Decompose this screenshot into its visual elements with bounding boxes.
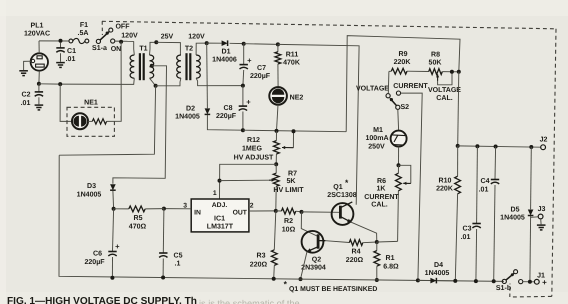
svg-text:220µF: 220µF bbox=[84, 259, 105, 266]
wire D3 cathode bbox=[112, 191, 115, 209]
dashed border left stub bbox=[101, 21, 103, 35]
diode D2 bbox=[205, 108, 211, 114]
svg-text:.01: .01 bbox=[66, 56, 76, 63]
svg-text:2: 2 bbox=[250, 203, 254, 210]
dashed border bottom-left stub bbox=[509, 284, 511, 298]
node NE1 branch bbox=[58, 82, 62, 86]
node D5 top bbox=[529, 145, 533, 149]
svg-text:ON: ON bbox=[111, 46, 122, 53]
resistor R12 bbox=[274, 131, 280, 164]
svg-text:NE1: NE1 bbox=[84, 100, 98, 107]
svg-text:2SC1308: 2SC1308 bbox=[327, 192, 356, 199]
label R3 bbox=[250, 253, 268, 269]
label R4 bbox=[346, 249, 364, 264]
svg-text:+: + bbox=[115, 242, 120, 251]
label IC1 pins bbox=[194, 202, 248, 230]
label ON bbox=[111, 46, 122, 53]
svg-text:IN: IN bbox=[194, 210, 201, 217]
label C2 bbox=[21, 92, 31, 107]
plug PL1 bbox=[31, 53, 48, 70]
node ADJ bbox=[218, 179, 222, 183]
node C2 bbox=[37, 82, 41, 86]
label S1-b bbox=[496, 284, 512, 292]
svg-text:J3: J3 bbox=[538, 206, 546, 213]
label D4 bbox=[425, 262, 450, 277]
wire T2 secondary top bbox=[196, 43, 207, 55]
label R5 bbox=[129, 215, 147, 230]
wire S1b to J1 bbox=[523, 281, 535, 283]
label OFF bbox=[115, 24, 130, 31]
node IN bbox=[162, 207, 166, 211]
wire IN lead bbox=[164, 208, 191, 210]
dashed box NE1 bbox=[67, 107, 114, 136]
wire Q1 base bbox=[302, 211, 340, 213]
resistor R3 bbox=[271, 211, 277, 279]
wire T1 primary bottom bbox=[60, 78, 134, 84]
regulator IC1 bbox=[191, 199, 249, 232]
svg-text:OFF: OFF bbox=[115, 24, 130, 31]
svg-text:+: + bbox=[246, 98, 251, 107]
node R8 out a bbox=[450, 70, 454, 74]
svg-text:PL1: PL1 bbox=[31, 23, 44, 30]
wire bottom rail mid bbox=[301, 279, 505, 281]
node J2 rail start bbox=[456, 144, 460, 148]
label 120V-b bbox=[188, 34, 205, 41]
node R7 top bbox=[274, 162, 278, 166]
svg-text:D3: D3 bbox=[87, 183, 96, 190]
svg-text:CAL.: CAL. bbox=[371, 202, 387, 209]
label Q2 bbox=[301, 257, 326, 272]
svg-text:ADJ.: ADJ. bbox=[212, 202, 228, 209]
pot R6 wiper bbox=[399, 165, 411, 185]
node C4 top bbox=[494, 145, 498, 149]
svg-text:50K: 50K bbox=[429, 59, 443, 66]
capacitor C3 bbox=[472, 146, 480, 281]
label R7 bbox=[273, 171, 304, 194]
wire T1 bottom to common bbox=[59, 86, 155, 155]
node C1 bbox=[59, 39, 63, 43]
svg-text:1N4005: 1N4005 bbox=[500, 214, 525, 221]
label J1 bbox=[537, 273, 547, 288]
node C4 bottom bbox=[492, 279, 496, 283]
wire D1 anode lead bbox=[207, 42, 222, 44]
ground C1 bbox=[56, 63, 65, 68]
node OUT bbox=[274, 209, 278, 213]
wire R6 bottom bbox=[377, 240, 398, 243]
svg-text:IC1: IC1 bbox=[214, 216, 225, 223]
label pin2 bbox=[250, 203, 254, 210]
label M1 bbox=[365, 127, 388, 151]
svg-text:R7: R7 bbox=[288, 171, 297, 178]
svg-text:220K: 220K bbox=[436, 186, 454, 193]
label R1 bbox=[383, 255, 399, 270]
transistor Q2 bbox=[302, 231, 326, 253]
svg-text:D1: D1 bbox=[221, 49, 230, 56]
dashed border right bbox=[552, 29, 556, 297]
wire D2 cathode bbox=[207, 115, 243, 130]
svg-text:S1-b: S1-b bbox=[496, 284, 512, 292]
footnote heatsink bbox=[284, 279, 378, 293]
wire D5 anode bbox=[530, 147, 533, 209]
node C7 top bbox=[242, 42, 246, 46]
svg-text:220µF: 220µF bbox=[216, 113, 237, 120]
wire T1 primary top bbox=[133, 41, 136, 55]
ground J3 bbox=[537, 225, 546, 230]
label J2 bbox=[540, 137, 548, 144]
node R12 wiper bbox=[292, 129, 296, 133]
svg-text:120VAC: 120VAC bbox=[24, 31, 50, 38]
node R12 top bbox=[275, 129, 279, 133]
svg-text:is is the schematic of the: is is the schematic of the bbox=[199, 298, 300, 304]
wire T2 secondary bottom bbox=[196, 78, 243, 86]
svg-text:250V: 250V bbox=[368, 143, 385, 150]
wire T1 secondary top bbox=[150, 42, 157, 55]
wire NE2 bottom bbox=[277, 105, 279, 131]
svg-text:470K: 470K bbox=[283, 60, 301, 67]
pot R12 wiper bbox=[282, 131, 294, 149]
neon lamp NE1 bbox=[72, 113, 88, 129]
ground C2 bbox=[35, 105, 44, 110]
resistor R6 bbox=[396, 165, 402, 241]
svg-text:C1: C1 bbox=[67, 48, 76, 55]
svg-text:220Ω: 220Ω bbox=[250, 262, 268, 269]
node C6 bottom bbox=[110, 276, 114, 280]
wire S2 pole lead bbox=[397, 109, 400, 130]
diode D1 bbox=[222, 40, 228, 46]
pot R7 arrow bbox=[269, 179, 275, 182]
resistor R5 bbox=[114, 206, 164, 212]
svg-text:120V: 120V bbox=[121, 33, 138, 40]
label T1 bbox=[139, 46, 147, 53]
label 25V bbox=[161, 33, 174, 40]
svg-text:10Ω: 10Ω bbox=[282, 227, 296, 234]
label R8 bbox=[429, 51, 443, 66]
connector J1 bbox=[534, 279, 539, 284]
wire NE1 left bbox=[60, 84, 72, 121]
label 120V-a bbox=[121, 33, 138, 40]
svg-text:M1: M1 bbox=[373, 127, 383, 134]
wire top rail A bbox=[39, 40, 69, 42]
node C3 bottom bbox=[474, 279, 478, 283]
wire J3 link bbox=[531, 216, 538, 219]
wire S2 current lead bbox=[401, 93, 423, 280]
svg-text:D4: D4 bbox=[434, 262, 443, 269]
svg-text:C2: C2 bbox=[21, 92, 30, 99]
wire PL1 bottom bbox=[38, 71, 40, 84]
svg-text:C5: C5 bbox=[174, 253, 183, 260]
node 120V-a bbox=[119, 40, 123, 44]
svg-text:CAL.: CAL. bbox=[436, 95, 452, 102]
label J3 bbox=[538, 206, 546, 213]
label D5 bbox=[500, 207, 525, 222]
svg-text:FIG. 1—HIGH VOLTAGE DC SUPPLY.: FIG. 1—HIGH VOLTAGE DC SUPPLY. Th bbox=[7, 296, 197, 304]
svg-text:220µF: 220µF bbox=[250, 73, 271, 80]
svg-text:C4: C4 bbox=[480, 178, 489, 185]
svg-text:J2: J2 bbox=[540, 137, 548, 144]
svg-text:HV LIMIT: HV LIMIT bbox=[273, 187, 304, 194]
capacitor C6 bbox=[108, 209, 116, 278]
svg-text:R4: R4 bbox=[351, 249, 360, 256]
svg-text:Q1 MUST BE HEATSINKED: Q1 MUST BE HEATSINKED bbox=[289, 286, 377, 293]
node C7-C8 bbox=[241, 84, 245, 88]
meter M1 bbox=[391, 131, 407, 147]
svg-text:R11: R11 bbox=[286, 52, 299, 59]
label R9 bbox=[394, 51, 412, 66]
node C8 bottom bbox=[241, 128, 245, 132]
svg-text:R1: R1 bbox=[385, 255, 394, 262]
svg-text:R2: R2 bbox=[284, 218, 293, 225]
label C1 bbox=[66, 48, 76, 63]
svg-text:25V: 25V bbox=[161, 33, 174, 40]
resistor R10 bbox=[455, 146, 461, 281]
svg-text:VOLTAGE: VOLTAGE bbox=[428, 87, 461, 94]
node D1 anode bbox=[205, 41, 209, 45]
svg-text:Q1: Q1 bbox=[333, 184, 342, 191]
svg-text:OUT: OUT bbox=[233, 210, 248, 217]
capacitor C4 bbox=[491, 147, 499, 282]
label CURRENT-sw bbox=[393, 83, 428, 90]
resistor R7 bbox=[273, 164, 279, 211]
switch S2 bbox=[386, 91, 401, 109]
label Q1 bbox=[327, 178, 356, 200]
wire 25V rail bbox=[156, 42, 180, 55]
wire T1 secondary bottom bbox=[150, 78, 156, 86]
label R2 bbox=[282, 218, 296, 234]
resistor R8 bbox=[429, 69, 459, 75]
wire PL1 top bbox=[38, 41, 40, 53]
dashed border top bbox=[102, 21, 556, 29]
svg-text:1: 1 bbox=[213, 190, 217, 197]
fuse F1 bbox=[69, 38, 89, 43]
capacitor C5 bbox=[159, 209, 167, 278]
svg-text:220K: 220K bbox=[394, 59, 412, 66]
node current drop bbox=[416, 278, 420, 282]
wire T2 primary bottom bbox=[156, 78, 181, 86]
node 25V bbox=[154, 40, 158, 44]
ground PL1 bbox=[19, 71, 28, 76]
svg-text:6.8Ω: 6.8Ω bbox=[383, 263, 399, 270]
wire M1 bottom bbox=[398, 147, 400, 166]
transformer T1 bbox=[130, 53, 154, 80]
resistor R4 bbox=[349, 240, 377, 246]
svg-text:R5: R5 bbox=[133, 215, 142, 222]
svg-text:F1: F1 bbox=[80, 22, 88, 29]
svg-text:.01: .01 bbox=[21, 100, 31, 107]
wire J3 ground lead bbox=[540, 219, 542, 224]
svg-text:C8: C8 bbox=[223, 105, 232, 112]
svg-text:1K: 1K bbox=[376, 186, 386, 193]
svg-text:1N4005: 1N4005 bbox=[175, 114, 200, 121]
label VOLTAGE-sw bbox=[356, 86, 389, 93]
svg-text:1N4005: 1N4005 bbox=[425, 270, 450, 277]
resistor R2 bbox=[276, 208, 302, 214]
diode D5 bbox=[528, 210, 534, 216]
svg-text:NE2: NE2 bbox=[290, 95, 304, 102]
diode D3 bbox=[110, 184, 116, 190]
label C6 bbox=[84, 242, 120, 266]
pot R7 wiper wire bbox=[220, 179, 270, 181]
svg-text:.5A: .5A bbox=[78, 30, 89, 37]
svg-text:LM317T: LM317T bbox=[207, 224, 234, 231]
label R12 bbox=[234, 137, 274, 162]
svg-text:+: + bbox=[542, 278, 547, 287]
neon lamp NE2 bbox=[269, 87, 287, 105]
label VOLTAGE CAL bbox=[428, 87, 461, 102]
wire S2 voltage lead bbox=[387, 71, 390, 93]
wire D5 cathode bbox=[529, 216, 532, 282]
switch S1-a bbox=[96, 28, 114, 43]
wire Q2 emitter bbox=[301, 252, 308, 280]
label C3 bbox=[461, 225, 472, 241]
svg-text:S1-a: S1-a bbox=[92, 45, 107, 52]
label D3 bbox=[77, 183, 102, 199]
wire sense loop bbox=[346, 36, 460, 132]
wire J2 rail bbox=[458, 146, 541, 147]
svg-text:2N3904: 2N3904 bbox=[301, 265, 326, 272]
switch S1-b bbox=[502, 270, 523, 284]
diode D4 bbox=[430, 278, 436, 284]
svg-text:1MEG: 1MEG bbox=[242, 146, 262, 153]
wire PL1 ground lead bbox=[24, 61, 32, 70]
wire top rail B bbox=[244, 43, 278, 46]
svg-text:1N4006: 1N4006 bbox=[212, 57, 237, 64]
capacitor C2 bbox=[35, 84, 43, 105]
capacitor C7 bbox=[240, 44, 248, 86]
svg-text:HV ADJUST: HV ADJUST bbox=[234, 155, 274, 162]
pot R8 wiper bbox=[436, 72, 452, 85]
label D2 bbox=[175, 106, 200, 121]
node R2-Q1 bbox=[300, 210, 304, 214]
wire HV rail right bbox=[278, 44, 359, 204]
label pin1 bbox=[213, 190, 217, 197]
wire HV return bbox=[243, 130, 346, 132]
svg-text:100mA: 100mA bbox=[365, 135, 388, 142]
wire D4 anode lead bbox=[418, 279, 431, 281]
resistor R11 bbox=[275, 44, 281, 87]
label NE2 bbox=[290, 95, 304, 102]
wire D1 cathode lead bbox=[230, 42, 244, 44]
svg-text:220Ω: 220Ω bbox=[346, 257, 364, 264]
svg-text:5K: 5K bbox=[286, 178, 296, 185]
node D5 bottom bbox=[528, 280, 532, 284]
svg-text:R9: R9 bbox=[398, 51, 407, 58]
node R8 out b bbox=[457, 70, 461, 74]
node R3 bottom bbox=[272, 277, 276, 281]
node T1 tap bbox=[150, 64, 154, 68]
label S2 bbox=[400, 104, 409, 111]
caption bbox=[7, 296, 300, 304]
label pin3 bbox=[183, 203, 187, 210]
svg-text:470Ω: 470Ω bbox=[129, 223, 147, 230]
svg-text:R12: R12 bbox=[247, 137, 260, 144]
wire D2 anode bbox=[206, 43, 209, 108]
svg-text:+: + bbox=[247, 56, 252, 65]
node R4-R1 bbox=[375, 240, 379, 244]
node R1 bottom bbox=[375, 278, 379, 282]
node R11 top bbox=[276, 42, 280, 46]
svg-text:T2: T2 bbox=[185, 46, 193, 53]
node R10 bottom bbox=[453, 279, 457, 283]
svg-text:R10: R10 bbox=[439, 178, 452, 185]
label F1 bbox=[78, 22, 89, 37]
svg-text:Q2: Q2 bbox=[312, 257, 321, 264]
svg-text:R6: R6 bbox=[377, 178, 386, 185]
wire D4 cathode lead bbox=[438, 280, 455, 282]
node T1 sec bottom bbox=[154, 84, 158, 88]
node C5 bottom bbox=[161, 276, 165, 280]
node Q2 emitter bbox=[299, 277, 303, 281]
svg-text:.01: .01 bbox=[461, 234, 471, 241]
capacitor C1 bbox=[56, 43, 64, 62]
svg-text:R3: R3 bbox=[256, 253, 265, 260]
connector J2 bbox=[541, 145, 546, 150]
svg-text:R8: R8 bbox=[431, 51, 440, 58]
resistor R1 bbox=[374, 242, 380, 280]
wire bottom rail left bbox=[59, 155, 301, 279]
label C5 bbox=[174, 253, 183, 268]
resistor R9 bbox=[389, 68, 429, 74]
label C7 bbox=[247, 56, 271, 80]
wire Q2 base bbox=[301, 212, 317, 236]
svg-text:.01: .01 bbox=[479, 186, 489, 193]
transformer T2 bbox=[177, 53, 201, 80]
node M1-R6 bbox=[397, 163, 401, 167]
svg-text:120V: 120V bbox=[188, 34, 205, 41]
label D1 bbox=[212, 49, 237, 64]
svg-text:C3: C3 bbox=[462, 225, 471, 232]
svg-text:C7: C7 bbox=[257, 65, 266, 72]
node C3 top bbox=[475, 144, 479, 148]
label R11 bbox=[283, 52, 301, 67]
svg-text:C6: C6 bbox=[93, 251, 102, 258]
wire Q2 collector bbox=[325, 241, 349, 243]
wire Q1 emitter bbox=[351, 222, 376, 242]
node D3-R5 bbox=[112, 207, 116, 211]
label C8 bbox=[216, 98, 251, 120]
label PL1 bbox=[24, 23, 50, 38]
svg-text:S2: S2 bbox=[400, 104, 409, 111]
label R10 bbox=[436, 178, 454, 193]
wire neutral rail bbox=[39, 83, 60, 85]
wire switch to T1 bbox=[115, 40, 134, 42]
label NE1 bbox=[84, 100, 98, 107]
svg-text:VOLTAGE: VOLTAGE bbox=[356, 86, 389, 93]
wire OUT lead bbox=[249, 210, 276, 212]
dashed border bottom bbox=[510, 295, 552, 298]
svg-text:T1: T1 bbox=[139, 46, 147, 53]
label R6 bbox=[364, 178, 399, 209]
label T2 bbox=[185, 46, 193, 53]
svg-text:.1: .1 bbox=[175, 261, 181, 268]
wire R8 junction drop bbox=[458, 72, 459, 146]
label S1-a bbox=[92, 45, 107, 52]
svg-text:CURRENT: CURRENT bbox=[364, 194, 399, 201]
wire ADJ link bbox=[220, 164, 277, 199]
svg-text:D5: D5 bbox=[510, 207, 519, 214]
svg-text:D2: D2 bbox=[186, 106, 195, 113]
svg-text:CURRENT: CURRENT bbox=[393, 83, 428, 90]
resistor NE1R bbox=[88, 119, 107, 124]
label C4 bbox=[479, 178, 490, 194]
capacitor C8 bbox=[239, 86, 247, 131]
transistor Q1 bbox=[332, 202, 354, 225]
wire NE1 right bbox=[107, 42, 122, 122]
wire T1 center tap bbox=[113, 66, 167, 184]
svg-text:1N4005: 1N4005 bbox=[77, 192, 102, 199]
connector J3 bbox=[538, 214, 543, 219]
